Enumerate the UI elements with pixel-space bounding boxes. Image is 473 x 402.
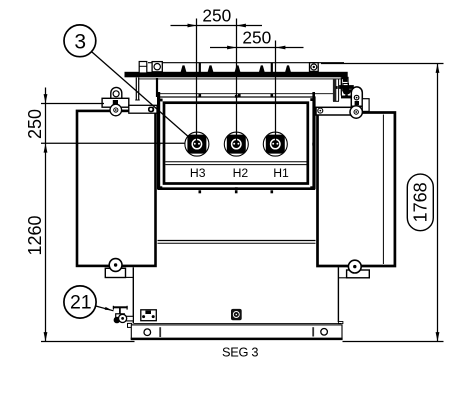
base skid frame [131,325,342,338]
box corner bolts [158,95,316,190]
left panel bottom pivot [105,268,125,277]
right panel bottom pivot [347,270,370,278]
dimension 250 (top, H2-H1 spacing) [210,47,304,49]
left cover bolt square [152,62,162,72]
flange bolts [199,94,274,97]
tank top left edge [156,78,158,97]
HV terminal box outer frame [158,97,315,189]
drain plug fitting [231,309,242,320]
cover right end bracket [340,78,342,96]
left dimension line (250 / 1260) [45,88,47,342]
left radiator panel [77,111,156,266]
callout balloon 3 [64,25,96,57]
right radiator panel [318,113,395,267]
tank mid seam double line [158,240,316,242]
left lug bracket [102,98,129,107]
right pivot pin [350,106,362,118]
svg-text:1260: 1260 [25,215,45,255]
right panel inner fold line [382,115,384,265]
svg-text:250: 250 [242,27,271,47]
separator double line [165,161,306,163]
cover clamps [181,63,292,73]
svg-text:250: 250 [202,6,231,26]
nameplate box [141,310,157,321]
left pivot pin [110,104,122,116]
framed dimension label 1768 [407,174,433,231]
callout balloon 21 [64,286,96,318]
base anchor holes [144,329,151,336]
svg-text:21: 21 [70,292,92,314]
bolts under box bottom [199,190,274,193]
svg-text:3: 3 [74,30,86,53]
leader from 3 [92,52,191,139]
svg-text:SEG 3: SEG 3 [222,344,258,359]
bushing H2 [224,132,248,156]
svg-text:250: 250 [25,109,45,139]
tank lower left edge [132,267,134,323]
centerline H2 [236,19,238,145]
right lifting lug [351,87,362,106]
drain valve (item 21) [113,306,128,308]
cover flange black bar [125,72,348,78]
dimension 250 (top, H3-H2 spacing) [171,25,263,27]
cover flange under line [138,78,340,80]
tank top flange line [159,93,336,95]
right support arm [316,107,352,115]
HV terminal box inner frame [164,103,308,184]
base web stiffeners [159,327,161,337]
cover left end drop [135,78,137,101]
base corner lips [128,323,132,327]
tank lower right edge [337,267,339,322]
svg-text:H1: H1 [273,166,289,180]
svg-text:1768: 1768 [411,182,431,222]
cover top edge line [148,62,344,64]
right step bracket [362,99,369,112]
left lifting lug [111,87,122,100]
centerline H1 [275,41,277,145]
extension lines (left dimension) [41,103,104,105]
pressure relief valve assembly [333,78,336,101]
bushing H1 [263,132,287,156]
svg-text:H3: H3 [190,166,206,180]
centerline H3 [196,19,198,145]
bushing H3 [185,132,209,156]
right cover bolt square [310,63,319,72]
left support arm [129,105,157,113]
cover junction box fitting [139,62,147,74]
svg-text:H2: H2 [233,166,249,180]
right dimension line 1768 [321,64,444,342]
